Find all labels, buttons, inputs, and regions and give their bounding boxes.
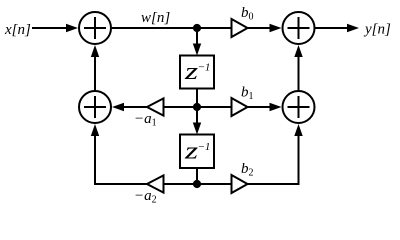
arrowhead into U1	[66, 24, 78, 32]
node N3	[193, 180, 201, 188]
wire Z2 to node N3	[196, 168, 198, 184]
svg-text:x[n]: x[n]	[4, 22, 31, 38]
adder U4 mid-right	[283, 91, 315, 123]
wire N2 left to -a1	[164, 106, 198, 108]
adder U1 top-left	[79, 12, 111, 44]
delay Z1 box	[180, 56, 214, 89]
arrowhead into U4 bottom	[294, 124, 302, 136]
arrowhead into U2	[270, 24, 282, 32]
wire U3 up to U1	[94, 56, 96, 92]
wire N2 right to b1	[197, 106, 232, 108]
gain -a1 triangle	[147, 98, 164, 115]
svg-text:y[n]: y[n]	[363, 22, 391, 38]
delay Z2 box	[180, 135, 214, 169]
gain b1 triangle	[232, 98, 248, 116]
svg-text:−1: −1	[198, 62, 211, 74]
arrowhead into U3 bottom	[91, 124, 99, 136]
adder U2 top-right	[283, 12, 315, 44]
wire N3 right to b2	[197, 183, 232, 185]
node N1	[193, 24, 201, 32]
arrowhead output y[n]	[347, 24, 359, 32]
wire output U2 to y[n]	[315, 27, 348, 29]
wire U1 to b0 through node w[n]	[112, 27, 232, 29]
gain b0 triangle	[232, 19, 248, 37]
gain -a2 triangle	[147, 175, 164, 192]
wire b2 east then north to U4	[248, 135, 299, 184]
wire Z1 to node N2 to Z2	[196, 89, 198, 126]
arrowhead into U3 from -a1	[112, 103, 124, 111]
wire b0 to adder U2	[248, 27, 271, 29]
arrowhead into U4 from b1	[270, 103, 282, 111]
wire b1 to adder U4	[248, 106, 272, 108]
svg-text:z: z	[184, 138, 198, 164]
wire -a2 west then north to U3	[95, 135, 147, 184]
wire -a1 to adder U3	[123, 106, 147, 108]
adder U3 mid-left	[79, 91, 111, 123]
arrowhead into Z1	[193, 44, 201, 56]
gain b2 triangle	[232, 175, 248, 193]
wire U4 up to U2	[298, 55, 300, 91]
arrowhead U3 to U1	[91, 45, 99, 57]
arrowhead U4 to U2	[294, 45, 302, 57]
svg-text:z: z	[184, 58, 198, 84]
arrowhead into Z2	[193, 123, 201, 135]
wire input x[n] to adder U1	[32, 27, 67, 29]
node N2	[193, 103, 201, 111]
wire node w[n] down to Z1	[196, 28, 198, 46]
wire N3 left to -a2	[164, 183, 198, 185]
svg-text:w[n]: w[n]	[141, 10, 170, 26]
svg-text:−1: −1	[198, 141, 211, 153]
